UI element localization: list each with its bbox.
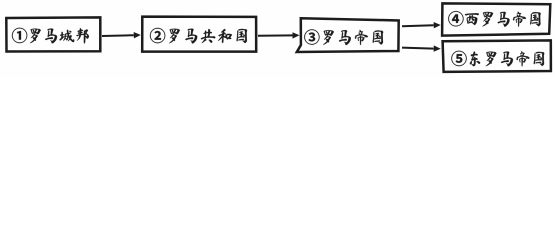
arrow box2 to box3 [258, 34, 293, 36]
box: stage ① Rome city-state 罗马城邦 [6, 17, 100, 51]
label ①罗马城邦 [12, 28, 89, 44]
box: stage ③ Roman Empire 罗马帝国 [297, 18, 399, 52]
arrow box3 to box5 (empire splits east) [402, 48, 434, 49]
label ⑤东罗马帝国 [451, 51, 544, 67]
label ③罗马帝国 [304, 29, 383, 45]
box: outcome ⑤ Eastern Roman Empire 东罗马帝国 [443, 40, 551, 72]
box: stage ② Roman Republic 罗马共和国 [142, 17, 256, 52]
arrow box1 to box2 [102, 34, 134, 37]
arrow box3 to box4 (empire splits west) [402, 25, 434, 26]
label ④西罗马帝国 [448, 11, 540, 27]
box: outcome ④ Western Roman Empire 西罗马帝国 [442, 3, 550, 35]
label ②罗马共和国 [150, 28, 247, 44]
